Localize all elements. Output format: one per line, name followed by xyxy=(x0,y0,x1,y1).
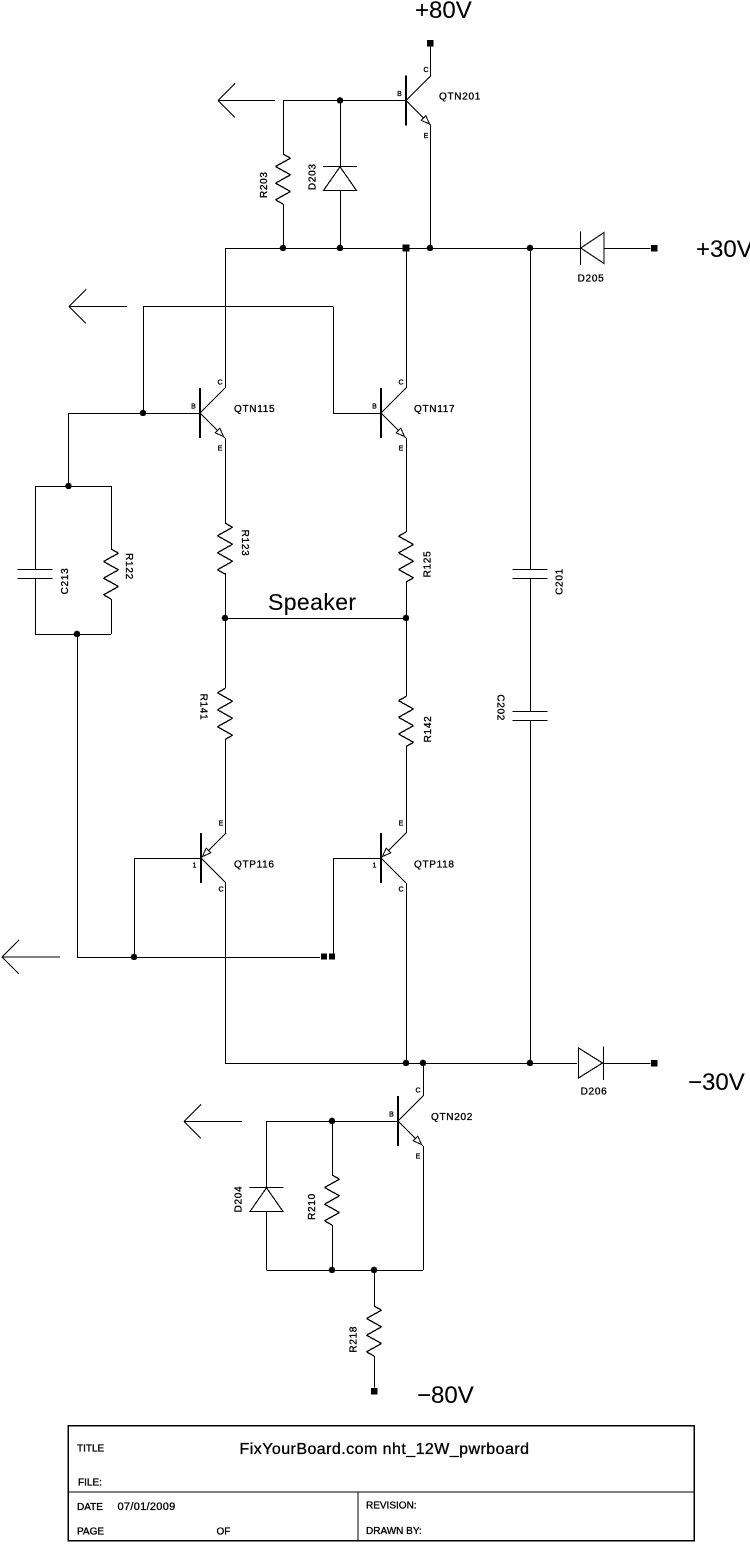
svg-text:E: E xyxy=(424,133,429,140)
svg-text:C: C xyxy=(218,887,223,894)
svg-text:C213: C213 xyxy=(60,568,71,595)
svg-text:E: E xyxy=(218,446,223,453)
svg-text:TITLE: TITLE xyxy=(77,1444,105,1455)
svg-text:D203: D203 xyxy=(307,163,318,190)
svg-text:R210: R210 xyxy=(307,1193,318,1220)
svg-text:R203: R203 xyxy=(259,171,270,198)
svg-text:E: E xyxy=(416,1154,421,1161)
svg-text:REVISION:: REVISION: xyxy=(366,1501,417,1512)
svg-text:C: C xyxy=(217,380,222,387)
svg-text:QTP118: QTP118 xyxy=(414,860,455,871)
svg-text:E: E xyxy=(399,821,404,828)
svg-text:C201: C201 xyxy=(555,568,566,595)
svg-text:QTN115: QTN115 xyxy=(234,404,275,415)
svg-text:C: C xyxy=(423,67,428,74)
svg-text:C: C xyxy=(415,1088,420,1095)
svg-text:R122: R122 xyxy=(123,553,134,580)
svg-text:D204: D204 xyxy=(234,1186,245,1213)
svg-text:R141: R141 xyxy=(198,694,209,721)
svg-text:D206: D206 xyxy=(581,1087,608,1098)
svg-text:B: B xyxy=(191,404,196,411)
svg-text:+30V: +30V xyxy=(696,236,750,263)
svg-text:1: 1 xyxy=(373,863,377,870)
svg-text:C: C xyxy=(398,380,403,387)
svg-text:R125: R125 xyxy=(423,551,434,578)
svg-text:B: B xyxy=(397,91,402,98)
svg-text:C: C xyxy=(398,887,403,894)
svg-text:DRAWN BY:: DRAWN BY: xyxy=(366,1526,422,1537)
svg-text:R123: R123 xyxy=(239,530,250,557)
svg-text:DATE: DATE xyxy=(77,1502,103,1513)
svg-text:D205: D205 xyxy=(578,274,605,285)
svg-text:QTN202: QTN202 xyxy=(431,1112,473,1123)
svg-text:Speaker: Speaker xyxy=(268,589,356,615)
svg-text:−80V: −80V xyxy=(417,1382,474,1409)
svg-text:OF: OF xyxy=(217,1526,231,1537)
svg-text:FILE:: FILE: xyxy=(78,1478,102,1489)
svg-text:FixYourBoard.com nht_12W_pwrbo: FixYourBoard.com nht_12W_pwrboard xyxy=(240,1441,530,1458)
svg-text:QTP116: QTP116 xyxy=(234,860,275,871)
svg-text:R218: R218 xyxy=(349,1326,360,1353)
svg-text:E: E xyxy=(219,821,224,828)
svg-text:R142: R142 xyxy=(423,716,434,743)
svg-text:1: 1 xyxy=(193,863,197,870)
svg-text:QTN117: QTN117 xyxy=(414,404,455,415)
svg-text:E: E xyxy=(399,446,404,453)
svg-text:QTN201: QTN201 xyxy=(439,92,481,103)
svg-text:07/01/2009: 07/01/2009 xyxy=(118,1501,176,1513)
svg-text:C202: C202 xyxy=(494,694,505,721)
svg-text:PAGE: PAGE xyxy=(77,1526,104,1537)
svg-text:−30V: −30V xyxy=(688,1069,745,1096)
svg-text:+80V: +80V xyxy=(415,0,472,24)
svg-text:B: B xyxy=(389,1112,394,1119)
svg-text:B: B xyxy=(372,404,377,411)
